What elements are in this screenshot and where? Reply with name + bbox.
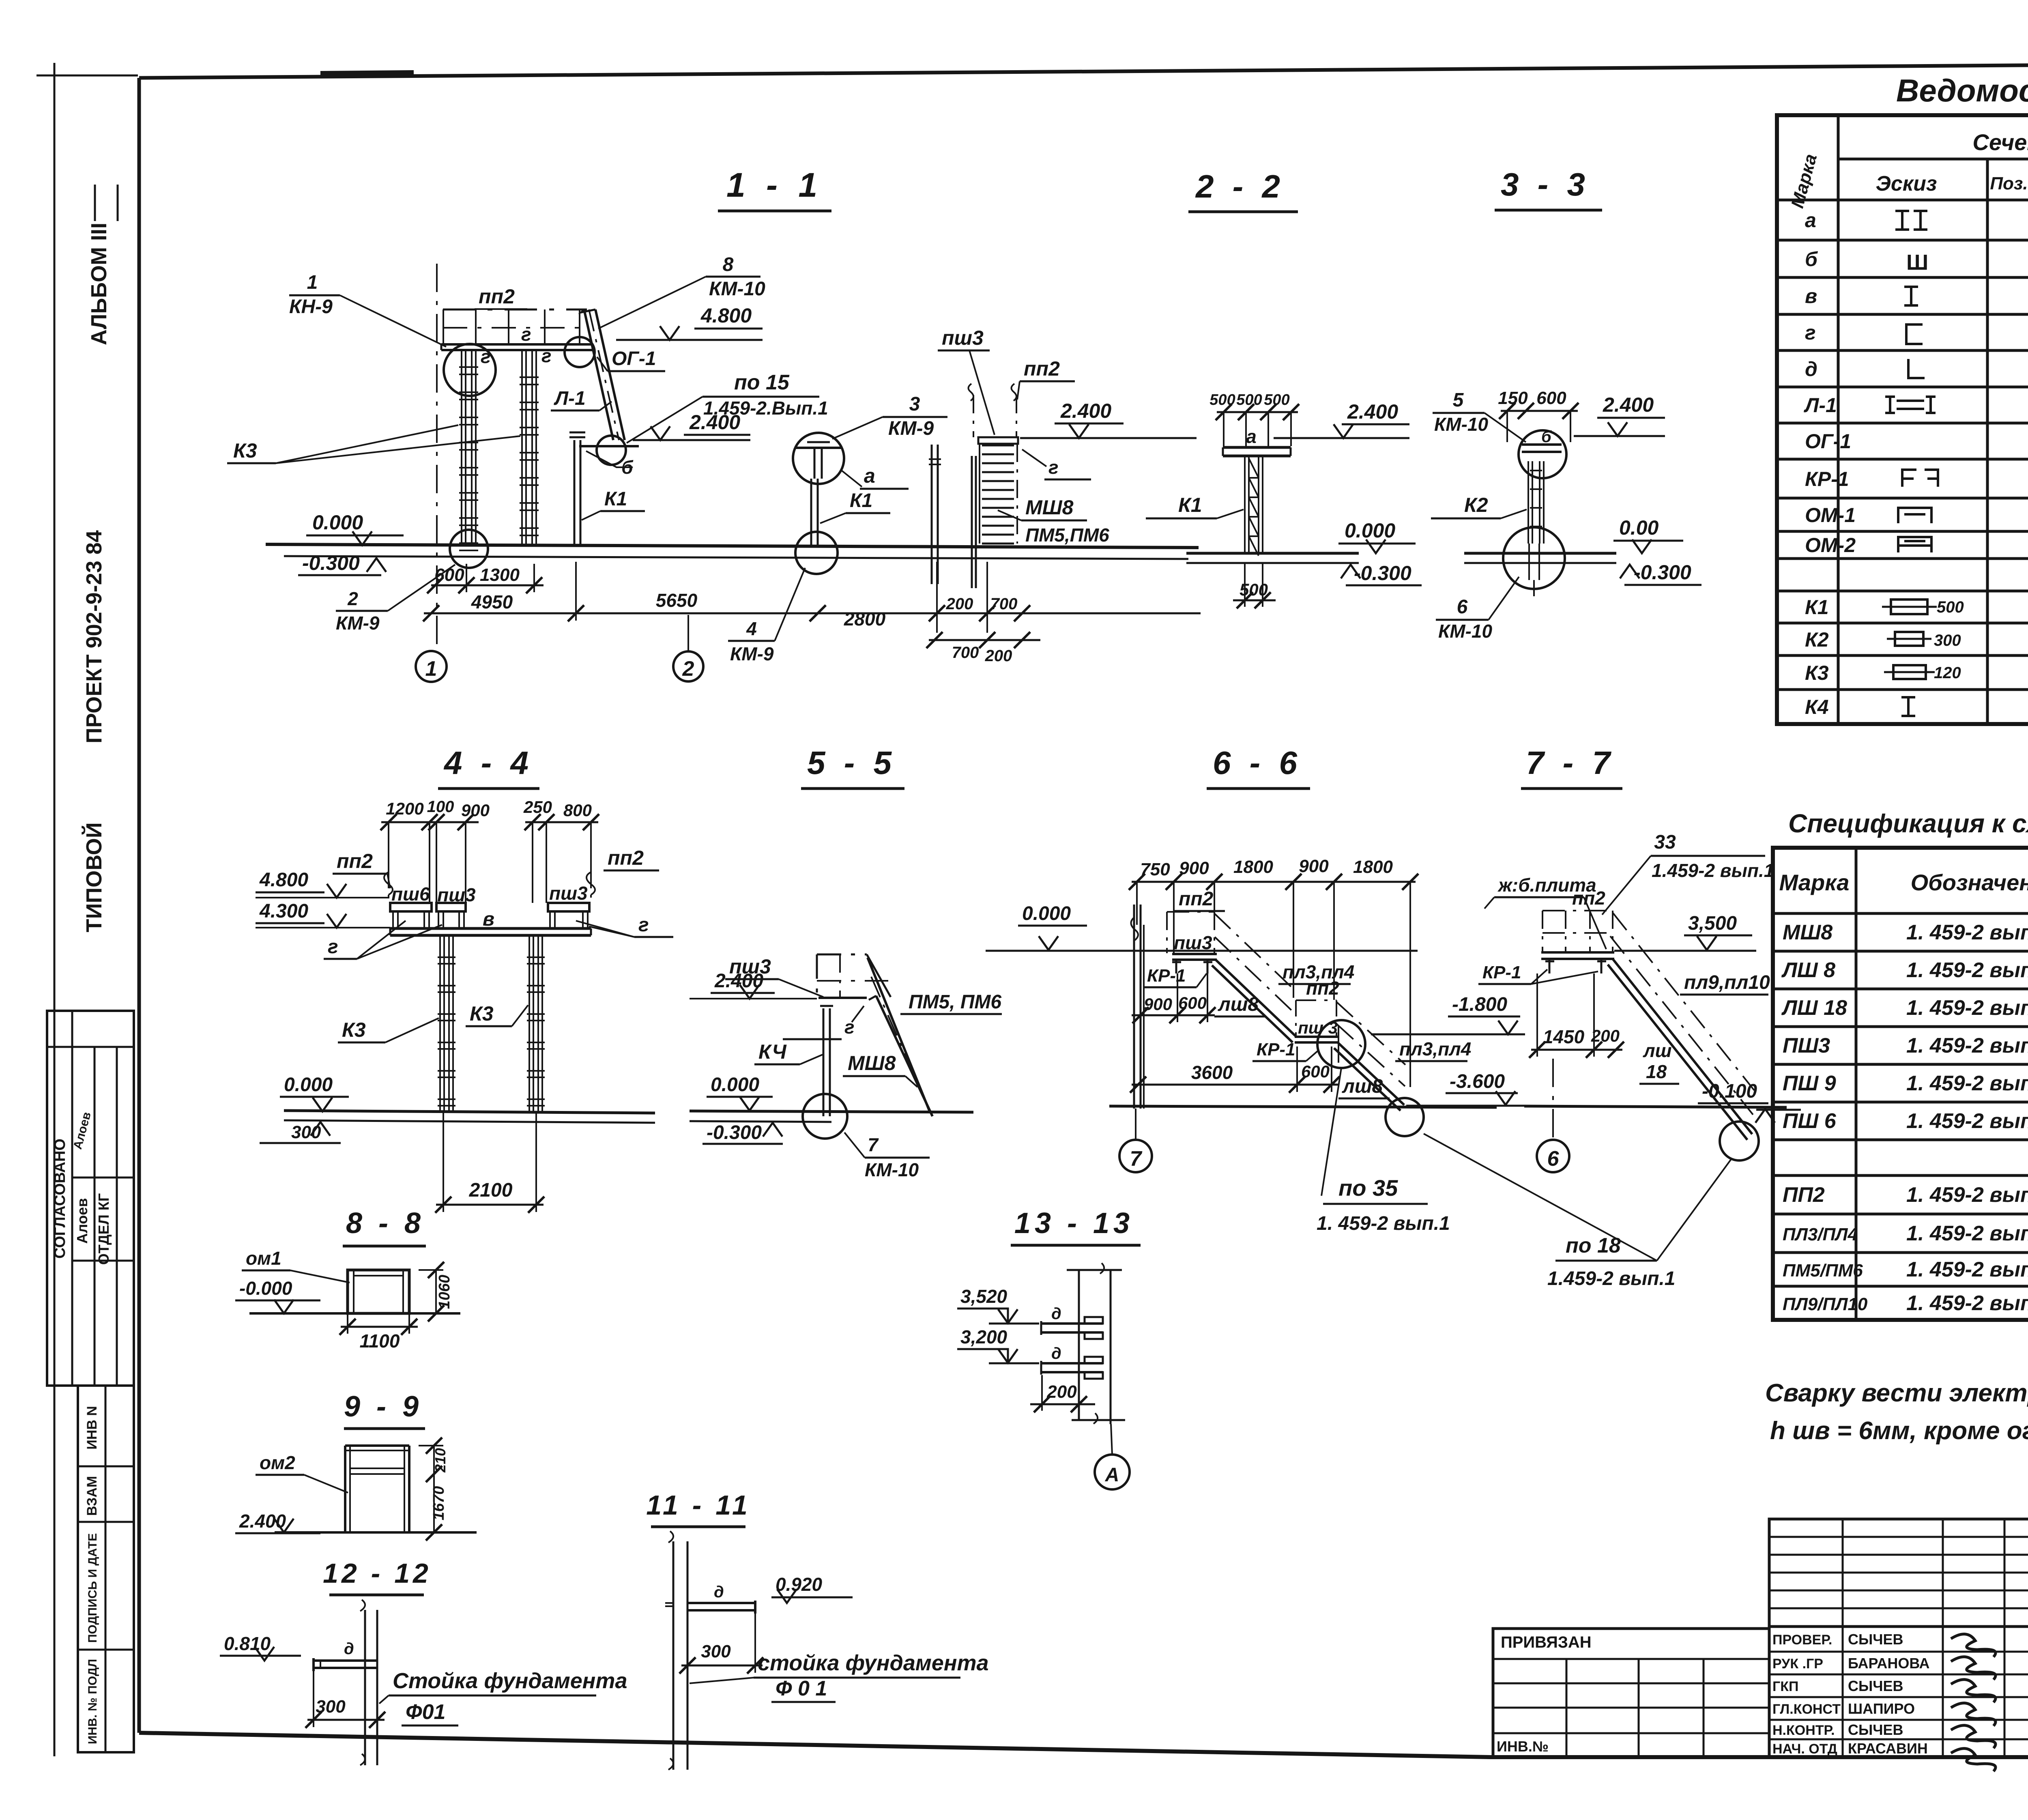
title block: small upper stamp grid bbox=[1769, 1519, 2028, 1627]
svg-text:г: г bbox=[481, 346, 491, 367]
section 2-2 ground bbox=[1186, 553, 1359, 563]
level -0.300 (5-5) bbox=[702, 1122, 783, 1144]
dim 500 bottom (2-2) bbox=[1233, 563, 1276, 608]
svg-text:9 - 9: 9 - 9 bbox=[344, 1390, 423, 1423]
section 1-1 axis line 1 bbox=[436, 264, 438, 651]
svg-text:Спецификация к схеме располож: Спецификация к схеме расположения bbox=[1788, 809, 2028, 838]
svg-text:Стойка фундамента: Стойка фундамента bbox=[393, 1669, 627, 1693]
detail circle top of K3 col1 bbox=[444, 344, 496, 396]
level -0.300 (4-4) bbox=[260, 1122, 341, 1143]
svg-text:600: 600 bbox=[1301, 1062, 1330, 1081]
level 2.400 (1-1 mid landing) bbox=[633, 411, 750, 440]
sidebar text: TIPOVOI rotated bbox=[82, 822, 106, 932]
svg-text:11 - 11: 11 - 11 bbox=[646, 1490, 751, 1521]
dim 2100 (4-4) bbox=[435, 1113, 544, 1213]
svg-text:1. 459-2 вып. 1: 1. 459-2 вып. 1 bbox=[1906, 958, 2028, 982]
svg-text:в: в bbox=[1805, 285, 1817, 307]
svg-text:пп2: пп2 bbox=[1306, 978, 1339, 999]
section 7-7 title bbox=[1521, 745, 1622, 789]
label g at K3 col2 top bbox=[541, 345, 552, 366]
svg-text:3,500: 3,500 bbox=[1688, 913, 1737, 934]
svg-text:по 35: по 35 bbox=[1338, 1175, 1398, 1201]
svg-text:-3.600: -3.600 bbox=[1450, 1071, 1505, 1092]
svg-text:КР-1: КР-1 bbox=[1147, 966, 1186, 986]
svg-text:1450: 1450 bbox=[1543, 1026, 1585, 1047]
svg-text:6: 6 bbox=[1457, 596, 1468, 618]
svg-text:стойка фундамента: стойка фундамента bbox=[758, 1651, 989, 1675]
svg-text:ПШ 9: ПШ 9 bbox=[1783, 1072, 1836, 1095]
detail circle a with column head bbox=[793, 433, 844, 484]
callout po 35 (6-6) bbox=[1317, 1068, 1450, 1234]
svg-text:250: 250 bbox=[523, 797, 552, 817]
svg-text:Поз.: Поз. bbox=[1990, 174, 2028, 193]
svg-text:г: г bbox=[328, 936, 338, 958]
label pp2 top (6-6) bbox=[1175, 888, 1225, 911]
svg-text:ПШ 6: ПШ 6 bbox=[1783, 1109, 1837, 1133]
level 3.200 (13-13) bbox=[957, 1326, 1039, 1363]
svg-text:300: 300 bbox=[701, 1642, 731, 1661]
section 13-13 bracket 2 bbox=[1041, 1345, 1103, 1379]
table Spetsifikatsiya: grid bbox=[1773, 848, 2028, 1320]
svg-text:8: 8 bbox=[723, 254, 734, 275]
sidebar stamp box INV/VZAM/PODPIS bbox=[78, 1386, 134, 1752]
svg-text:0.000: 0.000 bbox=[312, 511, 363, 534]
svg-text:ОТДЕЛ КГ: ОТДЕЛ КГ bbox=[95, 1193, 112, 1265]
svg-text:1: 1 bbox=[425, 657, 437, 681]
svg-text:4.800: 4.800 bbox=[259, 869, 308, 891]
svg-text:0.000: 0.000 bbox=[711, 1074, 759, 1096]
svg-text:д: д bbox=[1051, 1305, 1061, 1323]
callout 5 KM-10 bbox=[1433, 389, 1526, 442]
dims 3600 600 (6-6) bbox=[1130, 1046, 1340, 1093]
section 6-6 mid slab bbox=[1295, 1018, 1338, 1042]
svg-text:600: 600 bbox=[1536, 388, 1566, 408]
svg-text:г: г bbox=[1805, 321, 1816, 344]
svg-text:ПРОВЕР.: ПРОВЕР. bbox=[1772, 1632, 1832, 1648]
svg-text:2.400: 2.400 bbox=[1603, 393, 1654, 416]
label PM5,PM6 bbox=[1025, 524, 1109, 546]
svg-text:1. 459-2 вып. 2: 1. 459-2 вып. 2 bbox=[1906, 1258, 2028, 1281]
svg-text:200: 200 bbox=[1591, 1026, 1620, 1045]
section 3-3 column K2 bbox=[1528, 461, 1544, 544]
svg-text:д: д bbox=[714, 1583, 724, 1601]
svg-text:Ведомость: Ведомость bbox=[1896, 73, 2028, 108]
svg-text:ПЛ9/ПЛ10: ПЛ9/ПЛ10 bbox=[1783, 1294, 1868, 1314]
svg-text:К3: К3 bbox=[1805, 662, 1829, 684]
dim 210 1670 vertical (9-9) bbox=[419, 1438, 449, 1541]
label OM2 bbox=[256, 1452, 348, 1493]
svg-text:2.400: 2.400 bbox=[689, 411, 740, 434]
svg-text:500: 500 bbox=[1240, 580, 1268, 599]
svg-text:ОГ-1: ОГ-1 bbox=[612, 348, 656, 370]
table Vedomost: rows text bbox=[1804, 203, 2028, 719]
svg-text:Марка: Марка bbox=[1779, 870, 1850, 895]
svg-text:ом1: ом1 bbox=[246, 1248, 281, 1269]
section 4-4 columns K3 bbox=[438, 935, 545, 1112]
svg-text:КМ-10: КМ-10 bbox=[1438, 621, 1492, 642]
svg-text:2.400: 2.400 bbox=[1060, 400, 1111, 422]
svg-text:900: 900 bbox=[461, 801, 490, 820]
sidebar text: ALBOM III rotated bbox=[87, 185, 118, 345]
axis circle 7 bbox=[1119, 1109, 1152, 1172]
section 1-1 title bbox=[718, 166, 831, 211]
svg-text:200: 200 bbox=[1046, 1382, 1077, 1402]
svg-text:б: б bbox=[1805, 248, 1818, 271]
svg-text:1. 459-2 вып. 1: 1. 459-2 вып. 1 bbox=[1906, 1109, 2028, 1133]
svg-text:Ф01: Ф01 bbox=[406, 1700, 445, 1724]
svg-text:ВЗАМ: ВЗАМ bbox=[84, 1476, 100, 1516]
label L-1 bbox=[551, 388, 612, 410]
svg-text:К1: К1 bbox=[1178, 494, 1202, 516]
svg-text:h шв = 6мм, кроме оговоренных: h шв = 6мм, кроме оговоренных. bbox=[1770, 1417, 2028, 1445]
section 3-3 dims 150 600 bbox=[1498, 388, 1579, 442]
section 7-7 ground bbox=[1524, 1106, 1787, 1107]
svg-text:пш3: пш3 bbox=[549, 883, 588, 904]
section 6-6 ground bbox=[1109, 1106, 1497, 1107]
section 12-12 column bbox=[360, 1600, 377, 1765]
label KR-1 mid (6-6) bbox=[1252, 1040, 1318, 1061]
svg-text:120: 120 bbox=[1934, 664, 1961, 682]
table Vedomost: grid bbox=[1777, 115, 2028, 724]
svg-text:ПМ5/ПМ6: ПМ5/ПМ6 bbox=[1783, 1261, 1863, 1281]
svg-text:К3: К3 bbox=[233, 439, 257, 462]
svg-text:К4: К4 bbox=[1805, 696, 1829, 718]
svg-text:Сварку вести электродами Э-4: Сварку вести электродами Э-42 по ГОСТ 54… bbox=[1765, 1379, 2028, 1407]
svg-text:7: 7 bbox=[1130, 1147, 1143, 1171]
svg-text:-0.300: -0.300 bbox=[1354, 562, 1411, 584]
svg-text:300: 300 bbox=[291, 1122, 321, 1142]
svg-text:7: 7 bbox=[868, 1134, 879, 1155]
svg-text:4: 4 bbox=[746, 618, 757, 639]
svg-text:1800: 1800 bbox=[1353, 857, 1393, 877]
svg-text:ШАПИРО: ШАПИРО bbox=[1848, 1700, 1915, 1717]
callout po 18 (7-7) bbox=[1424, 1134, 1731, 1289]
label lsh8 lower (6-6) bbox=[1338, 1076, 1390, 1098]
section 8-8 ground bbox=[249, 1312, 460, 1315]
svg-text:пп2: пп2 bbox=[1179, 888, 1214, 910]
svg-text:1. 459-2 вып. 1: 1. 459-2 вып. 1 bbox=[1906, 996, 2028, 1020]
callout 3 KM-9 bbox=[832, 393, 947, 439]
svg-text:3 - 3: 3 - 3 bbox=[1501, 166, 1590, 202]
section 3-3 ground bbox=[1464, 553, 1616, 563]
section 5-5 column K4 bbox=[820, 1006, 833, 1116]
svg-text:800: 800 bbox=[563, 801, 592, 820]
svg-text:-0.300: -0.300 bbox=[302, 552, 360, 574]
label K3 right (4-4) bbox=[466, 1002, 528, 1026]
svg-text:в: в bbox=[483, 909, 494, 930]
svg-text:ОМ-2: ОМ-2 bbox=[1805, 534, 1856, 557]
svg-text:БАРАНОВА: БАРАНОВА bbox=[1848, 1655, 1930, 1672]
svg-text:1300: 1300 bbox=[480, 565, 520, 585]
svg-text:пш3: пш3 bbox=[437, 884, 476, 905]
svg-text:6: 6 bbox=[1547, 1147, 1560, 1171]
section 2-2 platform slab bbox=[1223, 447, 1291, 456]
svg-text:12 - 12: 12 - 12 bbox=[323, 1558, 432, 1589]
base detail circle K3 col1 bbox=[450, 530, 488, 568]
section 13-13 bracket 1 bbox=[1041, 1305, 1103, 1339]
table Vedomost: headers bbox=[1787, 128, 2028, 217]
svg-text:ТИПОВОЙ: ТИПОВОЙ bbox=[82, 822, 106, 932]
section 1-1 axis circle 1 bbox=[416, 651, 447, 682]
svg-text:1670: 1670 bbox=[430, 1486, 447, 1521]
svg-text:КР-1: КР-1 bbox=[1805, 468, 1849, 490]
section 1-1 ground lines bbox=[266, 544, 1199, 559]
svg-text:д: д bbox=[344, 1640, 354, 1658]
label pp2 right (4-4) bbox=[586, 847, 659, 895]
axis circle 6 bbox=[1537, 1059, 1569, 1172]
supports under slab (7-7) bbox=[1545, 960, 1606, 973]
label K1 no.3 bbox=[582, 488, 645, 520]
section 6-6 top dims bbox=[1129, 856, 1418, 1087]
svg-text:900: 900 bbox=[1299, 856, 1329, 876]
label lsh 18 (7-7) bbox=[1639, 1040, 1679, 1084]
column K1 no.3 bbox=[569, 432, 585, 546]
level -0.300 (3-3) bbox=[1620, 561, 1701, 585]
label K3 left (4-4) bbox=[338, 1018, 439, 1042]
dim 1060 vertical (8-8) bbox=[419, 1262, 453, 1321]
svg-text:НАЧ. ОТД: НАЧ. ОТД bbox=[1772, 1741, 1837, 1757]
svg-text:0.000: 0.000 bbox=[1022, 903, 1071, 924]
svg-text:300: 300 bbox=[1934, 632, 1961, 649]
svg-text:по 18: по 18 bbox=[1566, 1234, 1621, 1257]
label OM1 bbox=[242, 1248, 350, 1283]
svg-text:8 - 8: 8 - 8 bbox=[346, 1207, 425, 1240]
level 2.400 (9-9) bbox=[235, 1511, 320, 1533]
section 7-7 slab bbox=[1541, 952, 1614, 959]
svg-text:пп2: пп2 bbox=[608, 847, 644, 869]
label K4 (5-5) bbox=[754, 1040, 823, 1064]
level -0.300 (2-2) bbox=[1341, 562, 1422, 585]
label KR-1 (7-7) bbox=[1478, 963, 1598, 984]
label pp2 (1-1 right) bbox=[1017, 357, 1075, 400]
svg-text:ЛШ 18: ЛШ 18 bbox=[1781, 996, 1847, 1020]
svg-text:К3: К3 bbox=[342, 1019, 366, 1041]
svg-text:5: 5 bbox=[1453, 389, 1464, 411]
svg-text:ГЛ.КОНСТ: ГЛ.КОНСТ bbox=[1772, 1702, 1841, 1717]
svg-text:3,520: 3,520 bbox=[960, 1286, 1008, 1307]
svg-text:ИНВ.№: ИНВ.№ bbox=[1497, 1738, 1549, 1755]
section 9-9 title bbox=[344, 1390, 425, 1429]
svg-text:пп2: пп2 bbox=[1024, 357, 1060, 380]
callout po 15 bbox=[627, 371, 828, 443]
section 7-7 railing bbox=[1542, 911, 1613, 951]
label g on deck bbox=[521, 324, 531, 345]
svg-text:КЧ: КЧ bbox=[758, 1040, 787, 1063]
sheet outer thin trim line left bbox=[37, 63, 138, 1756]
label psh3 (1-1) bbox=[938, 327, 995, 435]
detail circle deck right end bbox=[565, 337, 595, 367]
svg-text:МШ8: МШ8 bbox=[1783, 921, 1833, 944]
svg-text:2: 2 bbox=[347, 588, 358, 609]
secondary dim 700 200 bbox=[926, 632, 1040, 665]
label stoyka fundamenta F01 (11-11) bbox=[690, 1651, 989, 1702]
svg-text:-0.300: -0.300 bbox=[1634, 561, 1691, 584]
svg-text:Л-1: Л-1 bbox=[1804, 394, 1837, 417]
svg-text:ПЛ3/ПЛ4: ПЛ3/ПЛ4 bbox=[1783, 1225, 1858, 1244]
svg-text:д: д bbox=[1805, 358, 1817, 380]
svg-text:4950: 4950 bbox=[471, 591, 513, 612]
column K1 no.4 bbox=[811, 479, 818, 546]
svg-text:пш3: пш3 bbox=[1174, 932, 1212, 953]
svg-text:2.400: 2.400 bbox=[239, 1511, 286, 1532]
callout 2 KM-9 bbox=[336, 565, 455, 634]
svg-text:1100: 1100 bbox=[360, 1330, 400, 1352]
svg-text:1.459-2 вып.1: 1.459-2 вып.1 bbox=[1547, 1268, 1675, 1289]
svg-text:4.800: 4.800 bbox=[700, 304, 752, 327]
section 4-4 railing posts bbox=[389, 872, 591, 903]
svg-text:СЫЧЕВ: СЫЧЕВ bbox=[1848, 1721, 1903, 1738]
section 5-5 title bbox=[801, 745, 904, 789]
level 0.000 (6-6) bbox=[986, 903, 1418, 951]
dim 200 (13-13) bbox=[1030, 1375, 1095, 1412]
label g (5-5) bbox=[783, 1006, 864, 1039]
svg-text:Л-1: Л-1 bbox=[554, 388, 586, 409]
svg-text:К1: К1 bbox=[850, 490, 872, 511]
base detail circle K1 no.4 bbox=[795, 532, 838, 574]
level 0.000 (2-2) bbox=[1338, 519, 1416, 553]
section 11-11 column bbox=[668, 1531, 687, 1770]
level 0.000 (1-1) bbox=[306, 511, 404, 545]
svg-text:200: 200 bbox=[946, 595, 973, 613]
svg-text:СЫЧЕВ: СЫЧЕВ bbox=[1848, 1631, 1903, 1648]
main dim line 4950 5650 2800 200 700 bbox=[423, 562, 1201, 633]
level 4.300 (4-4) bbox=[256, 900, 390, 928]
svg-text:500: 500 bbox=[1236, 391, 1262, 408]
svg-text:3: 3 bbox=[909, 393, 920, 415]
section 1-1 stair MSh8 block bbox=[929, 384, 1018, 588]
label pp2 (7-7) bbox=[1572, 887, 1605, 909]
label K1 (2-2) bbox=[1146, 494, 1244, 518]
svg-text:700: 700 bbox=[952, 644, 979, 662]
svg-text:0.000: 0.000 bbox=[1345, 519, 1395, 542]
svg-text:ом2: ом2 bbox=[260, 1452, 295, 1473]
svg-text:К3: К3 bbox=[470, 1002, 494, 1025]
section 4-4 deck beam bbox=[390, 928, 591, 935]
svg-text:Н.КОНТР.: Н.КОНТР. bbox=[1772, 1723, 1835, 1738]
dims 1450 200 (7-7) bbox=[1529, 973, 1624, 1058]
level 2.400 (5-5) bbox=[690, 970, 817, 999]
section 6-6 base circle bbox=[1386, 1098, 1424, 1136]
svg-text:К1: К1 bbox=[604, 488, 627, 510]
svg-text:ЛШ 8: ЛШ 8 bbox=[1781, 958, 1835, 982]
section 6-6 left wall column bbox=[1131, 905, 1144, 1109]
supports under top slab (6-6) bbox=[1172, 960, 1212, 973]
svg-text:4 - 4: 4 - 4 bbox=[443, 745, 533, 781]
svg-text:600: 600 bbox=[434, 565, 464, 585]
svg-text:1 - 1: 1 - 1 bbox=[726, 166, 823, 204]
section 1-1 platform deck bbox=[441, 344, 592, 350]
section 2-2 lattice column K1 bbox=[1245, 456, 1263, 556]
svg-text:700: 700 bbox=[990, 595, 1018, 613]
svg-text:500: 500 bbox=[1937, 598, 1964, 616]
callout 1 KN-9 bbox=[289, 272, 446, 347]
label MSh8 (5-5) bbox=[843, 1052, 917, 1087]
svg-text:600: 600 bbox=[1178, 993, 1207, 1012]
svg-text:2100: 2100 bbox=[469, 1180, 513, 1201]
section 9-9 frame OM2 bbox=[345, 1446, 409, 1532]
svg-text:100: 100 bbox=[427, 798, 454, 816]
svg-text:200: 200 bbox=[985, 647, 1012, 665]
svg-text:КМ-10: КМ-10 bbox=[865, 1159, 919, 1180]
section 7-7 base circle bbox=[1720, 1122, 1759, 1160]
level 2.400 (3-3) bbox=[1574, 393, 1665, 436]
svg-text:а: а bbox=[1246, 426, 1257, 447]
section 6-6 mid detail circle bbox=[1317, 1020, 1365, 1068]
level 3.500 (7-7) bbox=[1614, 913, 1756, 951]
svg-text:КР-1: КР-1 bbox=[1257, 1040, 1295, 1059]
label psh3 (5-5) bbox=[725, 955, 823, 997]
callout 7 KM-10 (5-5) bbox=[844, 1132, 930, 1180]
section 5-5 stair MSh8 bbox=[868, 958, 932, 1116]
svg-text:СЫЧЕВ: СЫЧЕВ bbox=[1848, 1678, 1903, 1694]
section 2-2 title bbox=[1188, 168, 1298, 212]
section 2-2 dims 500x3 bbox=[1209, 391, 1299, 447]
svg-text:МШ8: МШ8 bbox=[1025, 496, 1074, 519]
weld note text bbox=[1765, 1379, 2028, 1445]
svg-text:ОГ-1: ОГ-1 bbox=[1805, 430, 1851, 453]
svg-text:СОГЛАСОВАНО: СОГЛАСОВАНО bbox=[52, 1139, 69, 1259]
svg-text:1. 459-2 вып. 1: 1. 459-2 вып. 1 bbox=[1906, 921, 2028, 944]
svg-text:Марка: Марка bbox=[1787, 152, 1821, 210]
svg-text:А: А bbox=[1105, 1464, 1119, 1486]
section 9-9 ground bbox=[275, 1531, 477, 1534]
level 0.000 (5-5) bbox=[707, 1074, 773, 1111]
svg-text:750: 750 bbox=[1140, 860, 1170, 879]
svg-text:1. 459-2 вып.1: 1. 459-2 вып.1 bbox=[1317, 1213, 1450, 1234]
label PM5 PM6 (5-5) bbox=[900, 991, 1002, 1014]
svg-text:5 - 5: 5 - 5 bbox=[807, 745, 896, 781]
label pp2 bbox=[475, 285, 527, 309]
svg-text:1. 459-2 вып. 1: 1. 459-2 вып. 1 bbox=[1906, 1072, 2028, 1095]
svg-text:КМ-10: КМ-10 bbox=[709, 278, 765, 300]
svg-text:лш: лш bbox=[1643, 1040, 1672, 1061]
svg-text:г: г bbox=[638, 914, 649, 936]
dim 300 (11-11) bbox=[679, 1614, 763, 1674]
svg-text:4.300: 4.300 bbox=[259, 900, 308, 922]
label g right (4-4) bbox=[576, 914, 673, 937]
svg-text:КН-9: КН-9 bbox=[289, 296, 333, 318]
svg-text:210: 210 bbox=[432, 1448, 449, 1473]
level -0.100 (7-7) bbox=[1698, 1081, 1801, 1123]
level -0.300 (1-1) bbox=[298, 552, 386, 575]
section 11-11 title bbox=[646, 1490, 751, 1527]
svg-text:ПМ5,ПМ6: ПМ5,ПМ6 bbox=[1025, 524, 1109, 546]
section 8-8 title bbox=[343, 1207, 426, 1246]
label MSh8 bbox=[998, 496, 1087, 520]
svg-text:3600: 3600 bbox=[1191, 1062, 1233, 1083]
svg-text:900: 900 bbox=[1144, 995, 1172, 1014]
svg-text:2 - 2: 2 - 2 bbox=[1195, 168, 1285, 204]
svg-text:7 - 7: 7 - 7 bbox=[1526, 745, 1615, 781]
svg-text:г: г bbox=[541, 345, 552, 366]
section 6-6 mid railing bbox=[1296, 1000, 1336, 1036]
svg-text:К2: К2 bbox=[1464, 494, 1488, 516]
svg-text:по 15: по 15 bbox=[734, 371, 790, 394]
svg-text:Эскиз: Эскиз bbox=[1876, 172, 1937, 196]
callout 8 KM-10 bbox=[598, 254, 765, 329]
svg-text:-0.300: -0.300 bbox=[707, 1122, 762, 1143]
svg-text:пш3: пш3 bbox=[942, 327, 984, 349]
svg-text:ОМ-1: ОМ-1 bbox=[1805, 504, 1856, 526]
svg-text:пп2: пп2 bbox=[337, 850, 373, 872]
dims 600 1300 bbox=[427, 564, 544, 593]
section 7-7 stair LSh18 bbox=[1608, 913, 1754, 1140]
section 11-11 bracket bbox=[665, 1583, 755, 1614]
svg-text:1.459-2 вып.1: 1.459-2 вып.1 bbox=[1652, 860, 1774, 881]
dim 1100 (8-8) bbox=[339, 1313, 418, 1352]
level -1.800 (6-6) bbox=[1371, 994, 1525, 1034]
section 4-4 ground bbox=[284, 1111, 655, 1123]
